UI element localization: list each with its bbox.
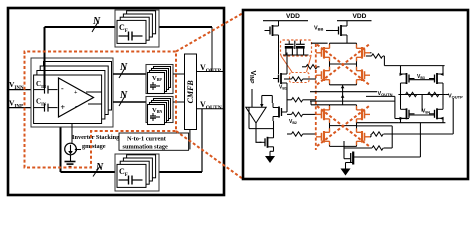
svg-text:N: N [92, 16, 101, 27]
svg-text:N-to-1 current: N-to-1 current [127, 136, 167, 143]
svg-text:summation stage: summation stage [123, 144, 169, 151]
svg-text:VDD: VDD [286, 13, 300, 20]
svg-text:gm stage: gm stage [82, 143, 106, 150]
svg-text:VINP: VINP [248, 71, 256, 85]
svg-text:+: + [61, 103, 66, 112]
svg-text:VOUTP: VOUTP [448, 94, 463, 100]
svg-text:CMFB: CMFB [186, 80, 195, 104]
svg-text:Inverter Stacking: Inverter Stacking [72, 134, 120, 141]
svg-text:VBB: VBB [314, 26, 324, 32]
svg-text:N: N [119, 90, 128, 101]
svg-text:N: N [95, 162, 104, 173]
svg-text:VBN: VBN [152, 107, 162, 114]
svg-text:VDD: VDD [353, 13, 367, 20]
svg-text:-: - [61, 84, 64, 93]
svg-text:+: + [74, 90, 78, 96]
svg-text:N: N [119, 62, 128, 73]
svg-text:VBP: VBP [152, 75, 162, 82]
svg-text:-: - [75, 104, 77, 110]
